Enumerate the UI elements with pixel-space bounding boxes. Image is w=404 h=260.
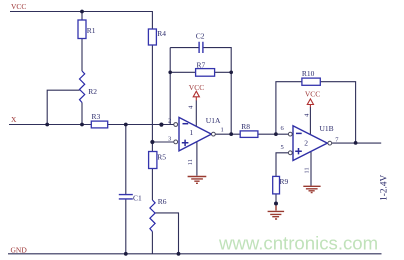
svg-text:R7: R7	[197, 61, 206, 70]
svg-text:7: 7	[335, 136, 339, 143]
svg-text:U1A: U1A	[206, 116, 221, 125]
svg-text:1: 1	[190, 128, 194, 137]
svg-text:R10: R10	[302, 69, 315, 78]
svg-text:4: 4	[304, 113, 311, 117]
svg-text:1-2.4V: 1-2.4V	[380, 174, 390, 200]
svg-text:11: 11	[187, 159, 194, 165]
svg-text:C2: C2	[196, 32, 205, 41]
svg-text:1: 1	[221, 126, 224, 133]
svg-text:3: 3	[168, 136, 171, 143]
svg-text:5: 5	[281, 144, 284, 151]
svg-text:U1B: U1B	[320, 124, 334, 133]
svg-text:C1: C1	[133, 194, 142, 203]
svg-text:VCC: VCC	[305, 90, 320, 99]
svg-text:6: 6	[281, 125, 285, 132]
svg-text:R6: R6	[158, 197, 167, 206]
svg-text:www.cntronics.com: www.cntronics.com	[218, 232, 378, 253]
svg-text:R5: R5	[157, 153, 166, 162]
svg-text:R2: R2	[88, 87, 97, 96]
svg-text:2: 2	[304, 139, 308, 148]
svg-text:VCC: VCC	[11, 2, 26, 11]
svg-text:4: 4	[188, 105, 195, 109]
svg-text:11: 11	[303, 167, 310, 173]
svg-text:GND: GND	[11, 246, 28, 255]
svg-text:X: X	[11, 115, 17, 124]
svg-text:R3: R3	[92, 112, 101, 121]
svg-text:R4: R4	[157, 29, 166, 38]
svg-text:R1: R1	[87, 26, 96, 35]
svg-text:2: 2	[168, 118, 171, 125]
svg-text:VCC: VCC	[189, 83, 204, 92]
svg-text:R8: R8	[241, 122, 250, 131]
svg-text:R9: R9	[280, 177, 289, 186]
